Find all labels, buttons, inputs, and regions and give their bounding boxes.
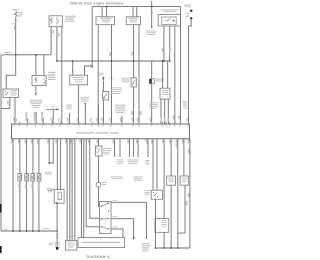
- ignition switch element: [57, 17, 59, 24]
- wire node stub to box1: [106, 7, 108, 17]
- exit1 label: [113, 199, 118, 202]
- fuel pump arrow wire: [103, 77, 105, 79]
- wire label s2: [131, 111, 133, 115]
- box B wire: [183, 139, 185, 176]
- bus231: [1, 230, 57, 232]
- incoming wire labels above strip: [13, 118, 188, 122]
- feed wire label: [90, 66, 93, 69]
- exit1 text block: [142, 242, 151, 245]
- TP sensor connector half dark: [151, 61, 153, 79]
- ground block: [56, 247, 58, 249]
- label upper: [188, 149, 190, 154]
- gauge circle: [96, 182, 101, 187]
- stub wire label: [52, 119, 54, 123]
- injector wire 2: [26, 139, 28, 231]
- ignition switch tall box: [100, 202, 112, 234]
- ground label: [49, 242, 54, 245]
- w111 arrow text: [99, 72, 105, 75]
- left edge wire down from bus1: [0, 55, 2, 231]
- relay out label: [81, 96, 90, 99]
- coil box ground wire: [56, 203, 58, 247]
- ignition fuse element: [50, 18, 52, 25]
- brake switch box: [96, 146, 103, 156]
- inner contact: [165, 19, 174, 21]
- node bus2 PCM relay: [72, 60, 74, 62]
- injector 4 label: [38, 185, 40, 188]
- box A down: [170, 185, 172, 248]
- end wire right joins bus: [189, 139, 191, 248]
- wire park box down1: [163, 26, 165, 61]
- fuse F1 top-left: [14, 11, 17, 17]
- wire a label: [7, 101, 9, 105]
- A/C select box: [160, 88, 170, 99]
- injector 3 label: [31, 185, 33, 188]
- NB text: [161, 220, 167, 223]
- box B text: [181, 177, 187, 180]
- wire into tall box lower: [86, 139, 99, 227]
- box label above: [161, 9, 179, 12]
- sensor box NB: [155, 219, 169, 233]
- pin ticks bottom: [13, 139, 189, 141]
- wire from fuse F1 down: [15, 17, 17, 76]
- stub label: [51, 106, 56, 109]
- to ignition text: [146, 30, 157, 33]
- fan wire end ticks: [113, 155, 121, 157]
- node bus2 w164: [163, 60, 165, 62]
- wires into PCM top left group: [28, 112, 44, 124]
- ICM pin ticks: [66, 236, 76, 238]
- right feed fuse 1: [190, 10, 192, 12]
- A/C relay contact: [44, 77, 46, 84]
- injector wire 4: [38, 139, 40, 231]
- note text right: [133, 176, 143, 179]
- ground connector outline: [55, 242, 59, 247]
- U loop text2: [46, 187, 54, 190]
- pass wire: [177, 139, 179, 248]
- wire A/C relay to arrow: [35, 86, 37, 94]
- node on bus1 at fuse wire: [15, 54, 17, 56]
- wire park box down3: [174, 26, 176, 124]
- wire park box down2: [169, 26, 171, 61]
- terminal dot wire: [85, 103, 87, 105]
- NB down: [163, 232, 165, 248]
- A/C select text: [162, 89, 169, 92]
- wire box2 left down: [133, 25, 135, 78]
- wire fuel pump box down: [102, 100, 104, 124]
- connector tick on wire: [14, 20, 17, 22]
- injector 2 box: [25, 174, 29, 181]
- wire label: [173, 115, 175, 119]
- ICM text: [67, 242, 75, 245]
- wire stub to PCM: [52, 109, 54, 124]
- label: [176, 144, 178, 148]
- tall box contacts: [101, 203, 108, 229]
- stub wire with node: [46, 108, 57, 110]
- arrow down: [132, 237, 134, 240]
- short wire text: [145, 159, 150, 162]
- fan text: [117, 159, 123, 162]
- pin ticks top: [15, 122, 189, 124]
- bus231 label right: [43, 227, 49, 230]
- short wire with note: [121, 116, 123, 125]
- box A text: [168, 177, 174, 180]
- node coil on bus231: [56, 230, 58, 232]
- wire top feed to box1: [101, 7, 103, 17]
- box A: [167, 176, 176, 185]
- park/neutral outer box: [158, 15, 180, 27]
- bus nodes: [155, 247, 157, 249]
- fuel pump switch box: [103, 92, 109, 100]
- wire label C left: [11, 22, 14, 25]
- ICM box: [65, 241, 76, 250]
- node relay feed corner: [91, 65, 93, 67]
- relay K1 text: [11, 89, 18, 92]
- relay RB box: [151, 190, 162, 199]
- injector 4 box: [37, 174, 41, 181]
- relay RB wires: [153, 139, 157, 190]
- node bus2 end w168: [169, 60, 171, 62]
- strip inner text: [76, 132, 94, 133]
- U loop label: [45, 171, 53, 174]
- label: [188, 193, 190, 197]
- wires A/C select down: [161, 99, 168, 124]
- fuse F1 label above: [12, 8, 19, 11]
- wires bus2 to A/C select: [163, 61, 168, 88]
- wire bus1 to A/C relay coil: [35, 55, 37, 76]
- wire bus1 to A/C relay contact: [43, 55, 45, 76]
- box1 text: [101, 17, 112, 20]
- sensor box NB wire: [163, 139, 165, 219]
- wire label: [162, 49, 164, 53]
- tall box exit1 to end tick: [111, 202, 146, 238]
- wire b label: [15, 118, 17, 122]
- wire 98.5 from above: [98, 105, 100, 124]
- small box text left: [121, 77, 130, 80]
- fuel pump text: [110, 87, 121, 90]
- bus1 horizontal: [1, 54, 51, 56]
- fuse F1 value label right: [18, 11, 23, 14]
- label: [186, 201, 188, 205]
- ac conn wires: [129, 139, 138, 157]
- wire label s1: [109, 52, 111, 56]
- right feed fuse 2: [190, 17, 192, 19]
- inner box: [162, 17, 176, 25]
- right feed text2: [186, 12, 190, 15]
- tall box center dashed: [104, 204, 106, 232]
- wire box2 feeds: [133, 7, 137, 17]
- bus231 nodes: [12, 230, 14, 232]
- brake switch text: [103, 147, 112, 150]
- top feed bus: [92, 6, 180, 8]
- bus231 label left: [4, 228, 8, 231]
- wire box2 right down: [138, 25, 140, 124]
- wire small box down: [133, 87, 135, 124]
- bus2 horizontal: [57, 60, 170, 62]
- node on top feed: [106, 6, 108, 8]
- relay RB text left: [145, 189, 151, 192]
- PCM2 text: [82, 242, 120, 243]
- node bus2: [162, 60, 164, 62]
- box B down merge: [178, 185, 185, 233]
- tall box exit2 to arrow: [111, 219, 134, 238]
- ac conn text: [128, 159, 139, 162]
- wire relay out a to left edge: [1, 98, 9, 109]
- ignition switch box: [49, 16, 62, 27]
- arrow to compressor: [35, 93, 37, 95]
- wire into tall box upper: [90, 139, 100, 219]
- right feed wire: [189, 19, 192, 124]
- left edge dark mark lower: [0, 246, 2, 253]
- PCM2 wires: [82, 139, 84, 238]
- wire 69 with note: [69, 113, 71, 124]
- exit2 label: [113, 215, 118, 218]
- node U loop: [48, 162, 50, 164]
- A/C relay box: [32, 75, 46, 85]
- A/C relay coil: [35, 77, 37, 83]
- wire ignition run feed long: [61, 27, 63, 124]
- node bus2 w133: [133, 60, 135, 62]
- relay K1 contact: [6, 92, 9, 96]
- wire box1 down long: [111, 25, 113, 124]
- node bus2 w111: [111, 60, 113, 62]
- node end on bus2: [56, 60, 58, 62]
- wire label: [169, 49, 171, 53]
- U loop wires: [49, 139, 53, 163]
- short wire with text: [147, 139, 149, 157]
- left edge dark mark upper: [0, 204, 2, 213]
- PCM connector strip: [12, 124, 190, 139]
- wire relay out b: [14, 98, 16, 124]
- injector 2 label: [25, 185, 27, 188]
- ignition coil box: [54, 190, 64, 204]
- labels for left group: [26, 112, 28, 118]
- note text mid: [111, 176, 123, 179]
- injector 1 box: [18, 174, 22, 181]
- svg-text:1996-98 Trans Engine Schematic: 1996-98 Trans Engine Schematics: [70, 2, 124, 6]
- relay RB down: [155, 199, 157, 248]
- box B: [180, 176, 188, 185]
- PCM2 wide box: [78, 238, 125, 248]
- TP wire down: [151, 84, 153, 124]
- fuel pump relay small box: [131, 78, 136, 87]
- TP note text: [149, 101, 158, 104]
- tall box exit3 to PCM2: [111, 229, 123, 238]
- TP text right: [156, 78, 165, 81]
- pin labels: [155, 242, 157, 243]
- coil inner: [58, 192, 62, 199]
- note block: [66, 104, 72, 107]
- injector wire 3: [32, 139, 34, 231]
- PCM power relay text: [73, 76, 85, 79]
- ignition feed arrow wire: [151, 6, 153, 8]
- brake switch wire: [98, 139, 100, 146]
- ac conn end ticks: [128, 155, 139, 157]
- injector wire 1: [19, 139, 21, 231]
- node coil box bottom: [56, 202, 58, 204]
- bottom connector bus: [156, 247, 190, 249]
- connector mark: [150, 12, 153, 14]
- bus1 label: [4, 51, 11, 54]
- svg-text:DIAGRAM 4: DIAGRAM 4: [87, 255, 110, 259]
- wire label mid: [131, 52, 133, 56]
- pin ticks above: [154, 243, 179, 245]
- wire gauge down: [99, 187, 100, 206]
- box2 connector: [126, 17, 140, 25]
- connector tick on relay wire: [72, 70, 75, 72]
- right feed text: [184, 4, 191, 7]
- wire ignition switch to bus2: [56, 27, 58, 61]
- wire PCM relay down: [77, 85, 79, 124]
- top feed corner down: [180, 7, 182, 124]
- wire label: [178, 115, 180, 119]
- coil box text left: [48, 189, 53, 192]
- wire ignition fuse to bus1 end: [50, 27, 52, 55]
- outgoing wire labels below strip: [11, 140, 189, 144]
- right wire note block: [182, 100, 187, 103]
- note text block: [115, 104, 127, 107]
- gauge text: [102, 181, 107, 184]
- coil box wires: [57, 139, 60, 190]
- box1 connector: [96, 17, 115, 25]
- to A/C compressor text: [30, 99, 42, 102]
- injector 3 box: [31, 174, 35, 181]
- left text block next to ignition feed: [48, 71, 56, 74]
- relay feed from top line: [85, 7, 93, 76]
- ICM wires: [67, 139, 75, 241]
- node bus1 A/C: [35, 54, 37, 56]
- wire box1 left down: [97, 25, 99, 124]
- PCM power relay box: [70, 75, 88, 85]
- fan wires: [115, 139, 121, 157]
- wire to gauge: [98, 156, 100, 182]
- arrow mark on w111: [110, 76, 112, 78]
- box A wire: [170, 139, 172, 176]
- ignition box text right: [65, 15, 76, 18]
- arrow down: [151, 26, 153, 28]
- box2 text: [129, 17, 139, 20]
- pin numbers row: [13, 125, 189, 126]
- wire pcm to bus231 no box: [12, 139, 14, 231]
- ground wire ticks: [56, 234, 59, 237]
- wire jog into relay: [6, 75, 16, 89]
- relay K1 box: [3, 89, 19, 98]
- wire label s3: [140, 111, 142, 115]
- wire bus2 to PCM relay: [72, 61, 74, 75]
- ignition wire labels: [52, 30, 54, 34]
- exit3 label: [113, 226, 118, 229]
- injector 1 label: [18, 185, 20, 188]
